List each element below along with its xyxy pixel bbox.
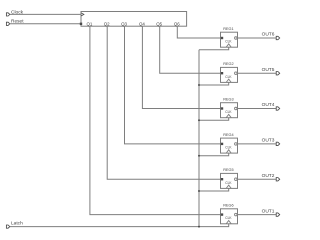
flip-flop REG4 [221,133,238,153]
svg-text:CLK: CLK [225,181,232,185]
wire Q3 to REG4 D [125,26,221,144]
svg-text:REG3: REG3 [223,98,233,102]
svg-text:OUT1: OUT1 [262,208,275,214]
wire Q6 to REG1 D [177,26,220,38]
wire clk branch to REG4 [199,153,229,156]
svg-text:CLK: CLK [225,110,232,114]
svg-text:REG1: REG1 [223,27,233,31]
svg-text:Q4: Q4 [139,21,145,26]
wire Q1 to REG6 D [90,26,221,214]
svg-text:REG5: REG5 [223,168,233,172]
wire clk branch to REG1 [199,47,229,50]
svg-text:OUT3: OUT3 [262,138,275,144]
junction [198,84,200,86]
flip-flop REG1 [221,27,238,47]
output port OUT2 [262,173,280,181]
junction [198,119,200,121]
svg-text:CLK: CLK [225,40,232,44]
wire Latch line [10,224,229,227]
wire Reset to counter [10,23,81,25]
junction [198,190,200,192]
svg-text:CLK: CLK [225,75,232,79]
flip-flop REG6 [221,204,238,224]
svg-text:Q6: Q6 [174,21,180,26]
wire Q5 to REG2 D [160,26,221,73]
svg-text:Q5: Q5 [156,21,162,26]
svg-text:OUT4: OUT4 [262,102,275,108]
output port OUT1 [262,208,280,216]
wire REG4 to OUT3 [238,143,276,145]
wire REG6 to OUT1 [238,214,276,216]
input port Reset [6,18,24,25]
svg-text:CLK: CLK [225,216,232,220]
wire REG3 to OUT4 [238,108,276,110]
svg-text:REG2: REG2 [223,62,233,66]
wire clk branch to REG5 [199,188,229,191]
junction [198,155,200,157]
wire clk branch to REG2 [199,82,229,85]
svg-text:Q2: Q2 [104,21,110,26]
flip-flop REG5 [221,168,238,188]
junction bus-latch [198,226,200,228]
svg-text:OUT6: OUT6 [262,32,275,38]
wire REG1 to OUT6 [238,37,276,39]
output port OUT4 [262,102,280,110]
input port Clock [6,9,23,16]
svg-text:Q1: Q1 [86,21,92,26]
svg-text:OUT2: OUT2 [262,173,275,179]
svg-text:Latch: Latch [11,221,23,227]
counter U1 [80,12,187,27]
svg-text:CLK: CLK [225,146,232,150]
wire REG5 to OUT2 [238,178,276,180]
output port OUT3 [262,138,280,146]
wire clk branch to REG3 [199,118,229,121]
input port Latch [6,221,23,229]
wire clock bus vertical [198,50,200,227]
svg-text:Q3: Q3 [121,21,127,26]
svg-text:REG6: REG6 [223,204,233,208]
wire REG2 to OUT5 [238,72,276,74]
flip-flop REG2 [221,62,238,82]
svg-text:REG4: REG4 [223,133,233,137]
wire Clock to counter [10,13,81,15]
wire Q4 to REG3 D [142,26,220,108]
wire Q2 to REG5 D [107,26,220,179]
output port OUT5 [262,67,280,75]
output port OUT6 [262,32,280,40]
svg-text:OUT5: OUT5 [262,67,275,73]
flip-flop REG3 [221,98,238,118]
